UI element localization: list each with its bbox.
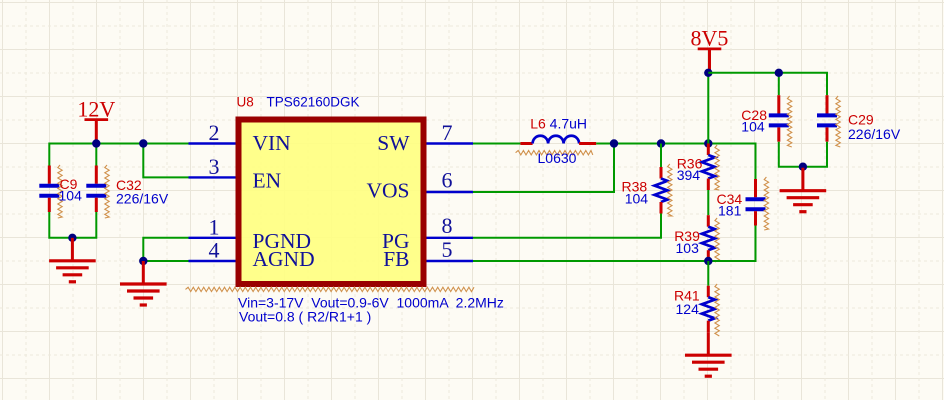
pin 8 PG xyxy=(382,213,473,253)
op-amp U1 body: IC U8 TPS62160DGK xyxy=(186,95,475,292)
svg-text:6: 6 xyxy=(442,168,453,193)
capacitor C9 xyxy=(39,165,82,218)
svg-text:U8: U8 xyxy=(237,95,254,110)
svg-text:1: 1 xyxy=(209,215,220,240)
svg-text:AGND: AGND xyxy=(253,247,315,271)
svg-text:104: 104 xyxy=(625,191,649,207)
node SW/R36/8V5 xyxy=(704,139,712,147)
svg-text:12V: 12V xyxy=(77,96,115,121)
svg-text:Vout=0.8 ( R2/R1+1 ): Vout=0.8 ( R2/R1+1 ) xyxy=(239,309,371,325)
node 8V5 xyxy=(704,69,712,77)
resistor R41 xyxy=(674,284,719,336)
capacitor C32 xyxy=(86,165,169,218)
inductor L6 xyxy=(516,116,597,166)
node 8V5/C28 xyxy=(775,69,783,77)
svg-text:5: 5 xyxy=(442,237,453,262)
svg-text:3: 3 xyxy=(209,154,220,179)
pin 3 EN xyxy=(189,154,282,192)
svg-text:TPS62160DGK: TPS62160DGK xyxy=(267,95,360,110)
wire R36-R39 xyxy=(707,190,709,215)
capacitor C34 xyxy=(717,177,769,230)
node output gnd xyxy=(799,163,807,171)
svg-text:103: 103 xyxy=(676,240,700,256)
pin 2 VIN xyxy=(189,120,292,155)
svg-text:EN: EN xyxy=(253,168,282,192)
wire AGND xyxy=(143,260,188,262)
wire R38 top xyxy=(660,144,662,168)
svg-text:L0630: L0630 xyxy=(538,150,577,166)
node SW/R38 xyxy=(657,139,665,147)
wire C32 top xyxy=(95,144,97,166)
wire PGND xyxy=(143,238,188,261)
wire VOS feedback xyxy=(473,144,614,193)
pin 7 SW xyxy=(377,120,473,155)
wire VIN rail xyxy=(49,144,188,166)
svg-text:124: 124 xyxy=(676,301,700,317)
pin 6 VOS xyxy=(366,168,473,203)
svg-text:VIN: VIN xyxy=(253,131,292,155)
node input gnd junction xyxy=(68,234,76,242)
wire C28 top xyxy=(778,73,780,95)
svg-text:7: 7 xyxy=(442,120,453,145)
svg-text:394: 394 xyxy=(677,167,701,183)
svg-text:SW: SW xyxy=(377,131,410,155)
capacitor C29 xyxy=(817,95,901,147)
svg-text:226/16V: 226/16V xyxy=(116,191,169,207)
node SW/VOS xyxy=(610,139,618,147)
wire PG to R38 xyxy=(473,214,661,238)
pin 5 FB xyxy=(383,237,473,271)
svg-text:104: 104 xyxy=(59,188,83,204)
resistor R39 xyxy=(674,215,719,262)
resistor R38 xyxy=(622,164,673,216)
wire R41 top xyxy=(707,261,709,286)
wire 8V5 to SW rail xyxy=(707,73,709,144)
svg-text:L6 4.7uH: L6 4.7uH xyxy=(530,116,587,132)
ground (output caps) xyxy=(801,168,804,191)
wire output gnd rail xyxy=(779,142,827,167)
wire EN branch xyxy=(143,144,188,178)
svg-text:226/16V: 226/16V xyxy=(848,126,901,142)
wire 8V5 rail xyxy=(708,73,827,95)
svg-text:8V5: 8V5 xyxy=(691,26,729,51)
ground (R41) xyxy=(707,332,710,355)
wire SW to L6 xyxy=(473,143,520,145)
svg-text:4: 4 xyxy=(209,238,220,263)
svg-text:181: 181 xyxy=(718,203,742,219)
node PGND/AGND junction xyxy=(139,257,147,265)
svg-text:VOS: VOS xyxy=(366,179,409,203)
svg-text:2: 2 xyxy=(209,120,220,145)
resistor R36 xyxy=(677,144,720,191)
wire SW rail to C34 xyxy=(596,144,755,180)
svg-text:104: 104 xyxy=(741,119,765,135)
node FB/R39/R41 xyxy=(704,257,712,265)
wire C9/C32 bottom rail xyxy=(49,212,96,238)
pin 1 PGND xyxy=(189,215,312,254)
wire FB rail xyxy=(473,226,756,262)
ground (chip gnd) xyxy=(142,261,145,284)
pin 4 AGND xyxy=(189,238,315,272)
node VIN/EN junction xyxy=(139,139,147,147)
ground (input caps) xyxy=(71,238,74,261)
capacitor C28 xyxy=(741,95,792,147)
node 12V/VIN xyxy=(92,139,100,147)
svg-text:FB: FB xyxy=(383,247,409,271)
svg-text:8: 8 xyxy=(442,213,453,238)
